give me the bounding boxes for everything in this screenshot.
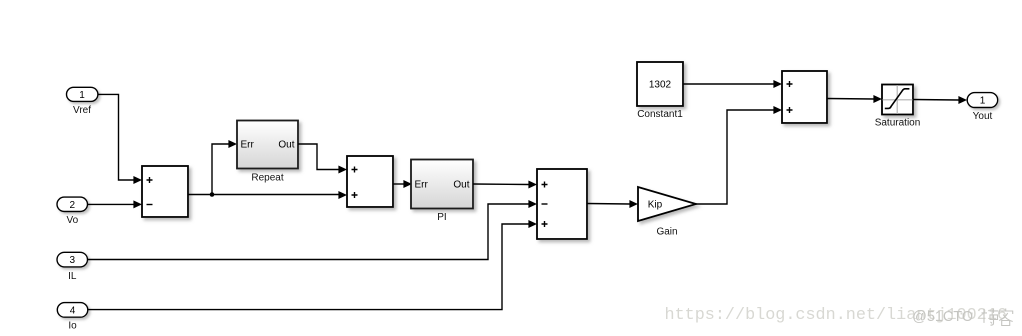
svg-text:IL: IL: [68, 271, 77, 282]
subsystem Repeat: [237, 121, 298, 184]
inport 3 IL: [57, 252, 88, 281]
wire Gain out to Sum3: [696, 106, 782, 204]
wire Saturation to Yout: [913, 96, 967, 104]
sum block Sum2: [347, 156, 393, 207]
saturation block: [875, 85, 921, 129]
svg-text:Vo: Vo: [66, 215, 78, 226]
junction dot: [210, 192, 215, 197]
svg-text:Out: Out: [453, 180, 469, 191]
sum block Sum1: [142, 166, 188, 217]
svg-text:3: 3: [70, 255, 76, 266]
wire Sum3 to Saturation: [827, 95, 882, 103]
svg-text:Err: Err: [415, 180, 429, 191]
wire Vo to Sum1: [88, 200, 143, 208]
inport 1 Vref: [67, 87, 98, 116]
wire Sum1 out to Sum2: [188, 191, 347, 199]
wire Sum4 out to Gain: [587, 200, 638, 208]
outport 1 Yout: [967, 93, 998, 122]
svg-text:Saturation: Saturation: [875, 117, 921, 128]
wire Io to Sum4: [88, 220, 537, 310]
watermark CJK glyph ke: [999, 309, 1014, 326]
inport 4 Io: [57, 303, 88, 332]
svg-text:PI: PI: [437, 212, 446, 223]
svg-text:Repeat: Repeat: [251, 173, 283, 184]
svg-text:Vref: Vref: [73, 105, 91, 116]
svg-text:Err: Err: [241, 140, 255, 151]
wire branch up to Repeat: [212, 140, 237, 195]
wire PI out to Sum4: [473, 181, 537, 189]
sum block Sum3: [782, 71, 827, 123]
svg-text:2: 2: [70, 200, 76, 211]
svg-text:Gain: Gain: [656, 227, 677, 238]
wire Repeat out to Sum2: [298, 144, 347, 174]
gain Kip: [638, 187, 696, 238]
subsystem PI: [411, 160, 473, 223]
constant Constant1: [637, 62, 683, 120]
watermark CJK glyph bo: [982, 308, 999, 325]
svg-text:1: 1: [79, 90, 85, 101]
wire Constant1 to Sum3: [683, 80, 782, 88]
svg-text:1: 1: [980, 96, 986, 107]
svg-text:@51CTO: @51CTO: [912, 309, 973, 325]
inport 2 Vo: [57, 197, 88, 226]
svg-text:Out: Out: [278, 140, 294, 151]
sum block Sum4 (3 inputs): [537, 169, 587, 239]
svg-text:Yout: Yout: [973, 111, 993, 122]
svg-text:4: 4: [70, 305, 76, 316]
svg-text:Kip: Kip: [648, 200, 663, 211]
svg-text:Constant1: Constant1: [637, 109, 683, 120]
wire Sum2 out to PI: [393, 180, 412, 188]
svg-text:1302: 1302: [649, 80, 672, 91]
svg-text:Io: Io: [68, 320, 77, 331]
wire Vref to Sum1: [98, 94, 142, 184]
wire IL to Sum4: [88, 200, 538, 260]
